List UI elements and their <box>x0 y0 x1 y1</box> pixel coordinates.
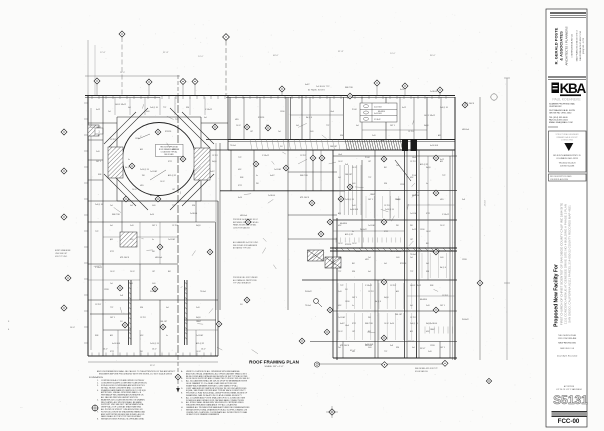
address block <box>548 103 576 128</box>
svg-text:JOB NO 94-1188: JOB NO 94-1188 <box>560 166 574 168</box>
svg-text:W8: W8 <box>140 351 143 353</box>
svg-text:1/2 PLY: 1/2 PLY <box>110 139 117 141</box>
svg-text:2x10 @ 24: 2x10 @ 24 <box>150 343 159 345</box>
project name vertical <box>554 203 572 327</box>
top dimension texts <box>100 51 436 92</box>
svg-text:HD5: HD5 <box>365 259 369 261</box>
svg-text:6x10: 6x10 <box>390 323 394 325</box>
svg-text:3x10: 3x10 <box>196 307 200 309</box>
svg-text:24 OC: 24 OC <box>132 189 138 191</box>
svg-text:38'-8": 38'-8" <box>420 348 426 350</box>
svg-text:ST22: ST22 <box>110 351 114 353</box>
svg-text:24 OC: 24 OC <box>352 167 358 169</box>
svg-text:TEL (614) 555 0440: TEL (614) 555 0440 <box>549 117 568 119</box>
middle section walls <box>216 97 345 360</box>
svg-text:MTL DECK: MTL DECK <box>340 345 350 347</box>
svg-text:TS 6x6: TS 6x6 <box>230 145 236 147</box>
section cut line <box>176 75 180 393</box>
svg-text:31'-8": 31'-8" <box>163 52 169 54</box>
svg-text:2x6: 2x6 <box>410 257 413 259</box>
svg-text:4x: 4x <box>256 175 258 177</box>
svg-text:CS16: CS16 <box>135 138 140 140</box>
dark double wall B <box>185 280 187 345</box>
svg-text:8d @ 6: 8d @ 6 <box>125 167 131 169</box>
svg-text:CS16: CS16 <box>345 301 350 303</box>
firm name rotated <box>554 26 586 65</box>
left bldg bottom dims <box>88 349 218 368</box>
svg-text:12/S5: 12/S5 <box>430 345 435 347</box>
svg-text:8d@6: 8d@6 <box>424 125 429 127</box>
svg-text:6x6: 6x6 <box>166 307 169 309</box>
svg-text:1/2 PLY: 1/2 PLY <box>410 161 417 163</box>
svg-text:4x14 GLB: 4x14 GLB <box>374 113 382 115</box>
svg-text:4x12: 4x12 <box>96 109 100 111</box>
left edge ticks <box>84 103 88 343</box>
hatch right of circle <box>194 148 210 180</box>
svg-text:1/2 PLY: 1/2 PLY <box>442 295 449 297</box>
svg-text:JST: JST <box>352 331 355 333</box>
svg-text:GLB 5 1/8x12: GLB 5 1/8x12 <box>424 115 435 117</box>
svg-text:1/2 PLY: 1/2 PLY <box>140 317 147 319</box>
svg-text:MTL DECK: MTL DECK <box>465 103 475 105</box>
dome square frame <box>117 117 201 201</box>
svg-text:ST22: ST22 <box>426 213 430 215</box>
svg-text:PC44: PC44 <box>352 109 357 111</box>
svg-text:4x6 P: 4x6 P <box>305 84 310 86</box>
svg-text:DET 9: DET 9 <box>96 161 101 163</box>
svg-text:ST6224: ST6224 <box>345 244 351 246</box>
left building inner walls <box>88 95 228 356</box>
right hall horizontals <box>220 156 457 311</box>
svg-text:2x6: 2x6 <box>396 165 399 167</box>
svg-text:(619) 555 - 1725: (619) 555 - 1725 <box>583 37 585 54</box>
svg-text:2x6: 2x6 <box>278 131 281 133</box>
svg-text:4x14 GLB: 4x14 GLB <box>112 343 121 345</box>
right top band verticals <box>230 95 441 140</box>
svg-text:S5131: S5131 <box>553 393 588 407</box>
svg-text:24'-0": 24'-0" <box>198 56 204 58</box>
svg-text:4x12: 4x12 <box>440 159 444 161</box>
svg-text:2x6: 2x6 <box>110 283 113 285</box>
far left tiny marks <box>8 321 23 409</box>
svg-text:2x6 @ 16: 2x6 @ 16 <box>95 204 103 206</box>
svg-text:DET 9: DET 9 <box>440 305 445 307</box>
svg-text:TS 6x6: TS 6x6 <box>200 291 206 293</box>
svg-text:TS 6x6: TS 6x6 <box>410 254 416 256</box>
svg-text:L4x4: L4x4 <box>338 154 342 156</box>
svg-text:6x10: 6x10 <box>150 214 154 216</box>
dark double wall A <box>129 280 131 345</box>
svg-text:1/2 PLY: 1/2 PLY <box>95 304 102 306</box>
svg-text:1/2 PLY: 1/2 PLY <box>172 225 179 227</box>
svg-text:12'-6": 12'-6" <box>100 52 106 54</box>
svg-text:12/S5: 12/S5 <box>400 184 405 186</box>
sheet info text <box>557 334 577 358</box>
svg-text:3x10: 3x10 <box>130 225 134 227</box>
svg-text:DBL JST: DBL JST <box>395 314 403 316</box>
svg-text:12/S5: 12/S5 <box>462 259 467 261</box>
svg-text:HSS 4x4: HSS 4x4 <box>240 215 247 217</box>
left building outline <box>85 95 228 356</box>
svg-text:8d@6: 8d@6 <box>196 225 201 227</box>
svg-text:W8: W8 <box>256 183 259 185</box>
svg-text:W14x22: W14x22 <box>462 319 469 321</box>
svg-text:1/2 PLY: 1/2 PLY <box>212 155 219 157</box>
svg-text:24 OC: 24 OC <box>130 271 136 273</box>
svg-text:TEL (614) 555-0123: TEL (614) 555-0123 <box>559 163 576 165</box>
svg-text:HD2: HD2 <box>130 239 133 241</box>
svg-text:1/2 PLY: 1/2 PLY <box>300 155 307 157</box>
consultant box <box>549 131 587 172</box>
svg-text:DET 9: DET 9 <box>152 225 157 227</box>
svg-text:1/2 PLY: 1/2 PLY <box>368 291 375 293</box>
svg-text:4x12: 4x12 <box>402 107 406 109</box>
svg-text:16 OC: 16 OC <box>110 271 116 273</box>
mid text paragraph 2 <box>233 241 259 250</box>
svg-text:2x6: 2x6 <box>110 205 113 207</box>
svg-text:8d@6: 8d@6 <box>384 297 389 299</box>
svg-text:31'-8": 31'-8" <box>338 51 344 53</box>
svg-text:2x6 @ 16: 2x6 @ 16 <box>440 107 448 109</box>
svg-text:GLB 5 1/8x12: GLB 5 1/8x12 <box>115 104 126 106</box>
svg-text:DBL JST: DBL JST <box>160 321 168 323</box>
svg-text:4x12 GLB: 4x12 GLB <box>374 107 382 109</box>
svg-text:PC44: PC44 <box>412 175 417 177</box>
svg-text:24 OC: 24 OC <box>338 331 344 333</box>
svg-text:COLUMBUS OHIO 43215: COLUMBUS OHIO 43215 <box>556 158 578 160</box>
svg-text:4x6 P: 4x6 P <box>340 323 345 325</box>
svg-text:96'-0": 96'-0" <box>430 55 436 57</box>
double rule <box>548 77 586 80</box>
hatch room lower-left <box>120 232 137 247</box>
svg-text:4x: 4x <box>166 335 168 337</box>
svg-text:5 1/8x12: 5 1/8x12 <box>205 109 212 111</box>
right hall outline <box>310 150 457 358</box>
top rules <box>550 13 586 18</box>
svg-text:GLB 5 1/8x12: GLB 5 1/8x12 <box>410 285 421 287</box>
svg-text:FCC-00: FCC-00 <box>558 418 580 425</box>
svg-text:6x6: 6x6 <box>204 117 207 119</box>
svg-text:L4x4: L4x4 <box>330 111 334 113</box>
svg-text:2x4 BLKG TYP: 2x4 BLKG TYP <box>316 86 330 88</box>
svg-text:2x6: 2x6 <box>338 347 341 349</box>
mid partial horizontals <box>288 172 337 239</box>
svg-text:24'-0": 24'-0" <box>390 53 396 55</box>
svg-text:HSS 4x4: HSS 4x4 <box>365 345 372 347</box>
svg-text:HD2: HD2 <box>172 149 175 151</box>
svg-text:ST22: ST22 <box>110 251 114 253</box>
svg-text:8d@6: 8d@6 <box>426 323 431 325</box>
svg-text:W8: W8 <box>368 317 371 319</box>
svg-text:4x8: 4x8 <box>426 263 429 265</box>
svg-text:3x10: 3x10 <box>338 291 342 293</box>
svg-text:16 OC: 16 OC <box>338 161 344 163</box>
svg-text:1131 CONCORD AVENUE AT GENESEE: 1131 CONCORD AVENUE AT GENESEE DRIVE SIT… <box>564 204 568 324</box>
hatch left of circle <box>108 147 123 178</box>
svg-text:JST: JST <box>338 257 341 259</box>
svg-text:5 1/8x12: 5 1/8x12 <box>374 119 381 121</box>
svg-text:Proposed New Facility For: Proposed New Facility For <box>554 264 560 327</box>
svg-text:FIRST CHURCH OF CHRIST SCIENTI: FIRST CHURCH OF CHRIST SCIENTIST OF SAN … <box>560 203 564 325</box>
svg-text:ARCHITECTS / PLANNERS: ARCHITECTS / PLANNERS <box>565 26 569 65</box>
svg-text:SIM: SIM <box>98 174 102 176</box>
mid text paragraph 1 <box>233 218 259 229</box>
svg-text:16 OC: 16 OC <box>338 243 344 245</box>
svg-text:48'-0": 48'-0" <box>273 55 279 57</box>
svg-text:2x6: 2x6 <box>108 111 111 113</box>
svg-text:2x BLKG: 2x BLKG <box>190 213 198 215</box>
svg-text:R. GERALD POSTE: R. GERALD POSTE <box>554 27 559 64</box>
svg-text:16'-0": 16'-0" <box>70 327 75 329</box>
svg-text:4x: 4x <box>152 239 154 241</box>
leader lines <box>94 104 438 354</box>
title block border <box>546 9 587 427</box>
svg-text:4x8: 4x8 <box>338 177 341 179</box>
svg-text:HD2: HD2 <box>338 305 341 307</box>
svg-text:4x8: 4x8 <box>384 263 387 265</box>
mini schedule table <box>360 103 397 122</box>
svg-text:DBL JST: DBL JST <box>330 146 338 148</box>
svg-text:16 OC: 16 OC <box>196 351 202 353</box>
svg-text:5 1/8x12: 5 1/8x12 <box>95 267 102 269</box>
svg-text:HD5: HD5 <box>440 199 444 201</box>
svg-text:6x6: 6x6 <box>338 199 341 201</box>
svg-text:172'-8": 172'-8" <box>483 200 485 206</box>
grid bubble diamond top-left <box>119 31 125 95</box>
svg-text:2x10 @ 24: 2x10 @ 24 <box>140 169 149 171</box>
stair boxes <box>308 250 342 268</box>
svg-text:2x BLKG: 2x BLKG <box>430 323 438 325</box>
lower partial walls <box>90 314 216 320</box>
svg-text:8d @ 6: 8d @ 6 <box>440 267 446 269</box>
interior diamonds <box>117 93 468 380</box>
svg-text:4x8: 4x8 <box>130 205 133 207</box>
svg-text:MTL DECK: MTL DECK <box>300 197 310 199</box>
svg-text:HSS 4x4: HSS 4x4 <box>155 257 162 259</box>
svg-text:5 1/8x12: 5 1/8x12 <box>365 285 372 287</box>
svg-text:PROVIDE DBL JOIST UNDER: PROVIDE DBL JOIST UNDER <box>233 277 258 279</box>
svg-text:W14x22: W14x22 <box>305 291 312 293</box>
chamfer diagonal <box>395 160 411 181</box>
left top band verticals <box>115 97 205 115</box>
svg-text:HD2: HD2 <box>338 225 341 227</box>
svg-text:TS 6x6: TS 6x6 <box>305 305 311 307</box>
svg-text:4x8: 4x8 <box>128 107 131 109</box>
svg-text:JST: JST <box>172 189 175 191</box>
svg-text:SIM: SIM <box>430 285 434 287</box>
gray subtitle <box>552 98 581 102</box>
svg-text:8d @ 6: 8d @ 6 <box>375 301 381 303</box>
svg-text:3x10: 3x10 <box>426 305 430 307</box>
svg-text:2x6 @ 16: 2x6 @ 16 <box>150 107 158 109</box>
svg-text:LINE SEE DET: LINE SEE DET <box>55 253 68 255</box>
svg-text:3x8: 3x8 <box>462 199 465 201</box>
right hall verticals <box>343 150 450 358</box>
svg-text:3x8: 3x8 <box>390 345 393 347</box>
svg-text:120'-0": 120'-0" <box>408 341 414 343</box>
svg-text:4x14 GLB: 4x14 GLB <box>430 145 439 147</box>
svg-text:1/2 PLY: 1/2 PLY <box>384 205 391 207</box>
svg-text:3x10: 3x10 <box>96 151 100 153</box>
svg-text:4/S5 TYP UNO: 4/S5 TYP UNO <box>55 256 68 258</box>
top-left room joists <box>340 165 361 215</box>
svg-text:W14x22: W14x22 <box>360 229 367 231</box>
svg-text:8d@6: 8d@6 <box>212 161 217 163</box>
svg-text:3x10: 3x10 <box>352 205 356 207</box>
svg-text:3x8: 3x8 <box>345 164 348 166</box>
svg-text:6x6: 6x6 <box>410 305 413 307</box>
svg-text:L4x4: L4x4 <box>345 325 349 327</box>
svg-text:6x6: 6x6 <box>110 225 113 227</box>
sheet number <box>558 418 580 425</box>
svg-text:2x6 @ 16: 2x6 @ 16 <box>410 323 418 325</box>
svg-text:2x6 @ 16: 2x6 @ 16 <box>430 251 438 253</box>
svg-text:8d @ 6: 8d @ 6 <box>306 117 312 119</box>
svg-text:SEE 7/S5: SEE 7/S5 <box>300 175 308 177</box>
svg-text:2x BLKG: 2x BLKG <box>430 91 438 93</box>
svg-text:ST6224: ST6224 <box>165 131 171 133</box>
svg-text:SEE 7/S5: SEE 7/S5 <box>365 323 373 325</box>
svg-text:HD2: HD2 <box>410 177 413 179</box>
bottom edge ticks <box>92 353 211 357</box>
notes preamble <box>97 370 176 376</box>
svg-text:24 OC: 24 OC <box>236 125 242 127</box>
corridor double line <box>228 140 455 151</box>
svg-text:JST: JST <box>368 161 371 163</box>
svg-text:GROVE RD OHIO 4550: GROVE RD OHIO 4550 <box>549 113 572 115</box>
svg-text:ST22: ST22 <box>384 231 388 233</box>
job number block <box>553 385 588 407</box>
notes column 2 <box>181 370 250 416</box>
svg-text:GLB 5 1/8x12: GLB 5 1/8x12 <box>90 127 101 129</box>
svg-text:DET 9: DET 9 <box>368 199 373 201</box>
svg-text:DBL JST: DBL JST <box>345 174 353 176</box>
svg-text:ST6224: ST6224 <box>400 263 406 265</box>
svg-text:W8: W8 <box>410 225 413 227</box>
svg-text:4x12: 4x12 <box>412 229 416 231</box>
mid text paragraph 3 <box>233 277 258 285</box>
svg-text:24'-0": 24'-0" <box>120 72 125 74</box>
foundation header <box>89 376 104 379</box>
svg-text:SIM: SIM <box>240 177 244 179</box>
svg-text:12/S5: 12/S5 <box>104 289 109 291</box>
svg-text:ST22: ST22 <box>352 323 356 325</box>
svg-text:ROOF FRAMING PLAN: ROOF FRAMING PLAN <box>249 360 299 365</box>
dome corner diagonals <box>104 108 214 210</box>
small ref box <box>95 128 103 134</box>
svg-text:....: .... <box>20 406 23 409</box>
dome circle <box>123 123 196 196</box>
svg-text:L4x4: L4x4 <box>412 157 416 159</box>
tiny annotations <box>90 84 475 347</box>
bay joists vertical <box>338 196 447 340</box>
svg-text:HD2: HD2 <box>140 335 143 337</box>
svg-text:16 OC: 16 OC <box>426 231 432 233</box>
svg-text:24 OC: 24 OC <box>352 243 358 245</box>
lower drag strut <box>330 248 457 251</box>
svg-text:4x8: 4x8 <box>130 283 133 285</box>
svg-text:92'-0": 92'-0" <box>150 365 155 367</box>
circle leader <box>138 134 166 180</box>
svg-text:16'-0": 16'-0" <box>152 349 157 351</box>
svg-text:1/2 PLY: 1/2 PLY <box>410 317 417 319</box>
svg-text:5 1/8x12: 5 1/8x12 <box>262 155 269 157</box>
top edge ticks <box>92 96 446 100</box>
grid bubble diamond top <box>223 34 230 95</box>
svg-text:W8: W8 <box>152 251 155 253</box>
svg-text:JST: JST <box>152 271 155 273</box>
svg-text:ST6224: ST6224 <box>258 117 264 119</box>
svg-text:3x8: 3x8 <box>120 295 123 297</box>
right dimension line <box>477 94 497 360</box>
svg-text:16'-0": 16'-0" <box>201 349 206 351</box>
svg-text:HD5: HD5 <box>140 185 144 187</box>
corridor dark blobs <box>402 139 417 151</box>
left building top-left hatch box <box>88 125 99 136</box>
svg-text:ST22: ST22 <box>238 185 242 187</box>
notes column 1 <box>97 379 148 420</box>
svg-text:W14x22: W14x22 <box>150 291 157 293</box>
svg-text:NEW REVISIONS: NEW REVISIONS <box>558 343 576 345</box>
svg-text:SEE 7/S5: SEE 7/S5 <box>112 214 120 216</box>
svg-text:PC44: PC44 <box>365 157 370 159</box>
svg-text:2x10 @ 24: 2x10 @ 24 <box>385 209 394 211</box>
svg-text:HD2: HD2 <box>426 331 429 333</box>
right top band outline <box>226 96 455 361</box>
svg-text:CS16: CS16 <box>280 111 285 113</box>
svg-text:PAUL KOEHNEKE: PAUL KOEHNEKE <box>552 98 581 102</box>
svg-text:24 OC: 24 OC <box>440 225 446 227</box>
svg-text:W8: W8 <box>142 175 145 177</box>
svg-text:2x BLKG: 2x BLKG <box>268 195 276 197</box>
svg-text:CS16: CS16 <box>420 229 425 231</box>
svg-text:4x: 4x <box>128 159 130 161</box>
svg-text:KBA: KBA <box>560 81 587 96</box>
plan title <box>249 360 299 369</box>
svg-text:SIM: SIM <box>95 335 99 337</box>
svg-text:4x: 4x <box>352 231 354 233</box>
svg-text:HSS 4x4: HSS 4x4 <box>462 129 469 131</box>
svg-text:CENTER INC: CENTER INC <box>549 106 562 108</box>
KBA logo <box>552 81 587 96</box>
svg-text:DET 9: DET 9 <box>440 347 445 349</box>
svg-text:HD5: HD5 <box>235 119 239 121</box>
svg-text:3x10: 3x10 <box>372 135 376 137</box>
svg-text:8d@6: 8d@6 <box>196 317 201 319</box>
svg-text:4x14 GLB: 4x14 GLB <box>350 209 359 211</box>
gray bar <box>552 412 588 417</box>
svg-text:4x8: 4x8 <box>296 125 299 127</box>
svg-text:SAN DIEGO, CALIFORNIA 92111 PA: SAN DIEGO, CALIFORNIA 92111 PARCEL 214-0… <box>568 205 572 323</box>
svg-text:1/2 PLY: 1/2 PLY <box>390 285 397 287</box>
svg-text:6x10: 6x10 <box>400 89 404 91</box>
svg-text:DET 9: DET 9 <box>390 125 395 127</box>
far right dimension line <box>504 78 510 360</box>
svg-text:16 OC: 16 OC <box>160 181 166 183</box>
svg-text:4x8: 4x8 <box>352 351 355 353</box>
svg-text:4x6 P: 4x6 P <box>210 171 215 173</box>
svg-text:DET 9: DET 9 <box>352 297 357 299</box>
circle note box <box>156 144 184 156</box>
svg-text:DET 9: DET 9 <box>110 317 115 319</box>
svg-text:16 OC: 16 OC <box>384 323 390 325</box>
svg-text:4x: 4x <box>426 183 428 185</box>
left margin grid diamonds <box>61 129 71 311</box>
svg-text:CONSULTING: CONSULTING <box>561 140 574 142</box>
left bldg top dim line <box>85 45 180 95</box>
svg-text:W8: W8 <box>396 225 399 227</box>
svg-text:MTL DECK: MTL DECK <box>120 257 130 259</box>
